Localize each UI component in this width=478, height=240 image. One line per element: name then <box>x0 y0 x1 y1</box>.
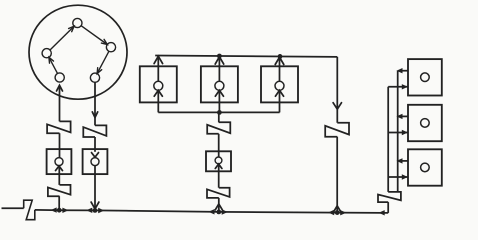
place in right buffer <box>91 158 99 166</box>
middle lower bus <box>158 111 279 113</box>
arrow up into left buffer place <box>56 166 63 171</box>
arrow up into M1 place <box>154 90 162 96</box>
wire top-bus corner down to T4 <box>333 57 341 123</box>
arrow down at bus junction 2 <box>91 202 99 209</box>
wire from left edge <box>2 207 24 209</box>
arrow up into middle buffer place <box>215 164 222 169</box>
arrow right at junction 4 <box>340 210 346 215</box>
right vertical bus A (outer) <box>387 87 389 192</box>
arrow up at bus junction 3 <box>215 204 222 210</box>
place in O2 <box>421 119 430 128</box>
buffer square right chain <box>83 149 108 174</box>
wire M1 up to top bus <box>154 56 163 81</box>
top bus <box>155 56 337 57</box>
arrow left at junction 2 <box>86 208 92 213</box>
junction dot top bus M3 <box>278 54 283 59</box>
wire M2 down to lower bus <box>218 90 220 112</box>
place top (small circle) <box>73 18 82 27</box>
wire T5 to small buffer <box>218 134 220 157</box>
small buffer square middle <box>206 151 231 171</box>
arrow left at junction 4 <box>328 210 334 215</box>
transition T3 (right chain) <box>83 125 106 137</box>
machine M2 square <box>201 66 238 102</box>
place in middle buffer <box>215 157 222 164</box>
arrow right at junction 3 <box>222 209 228 214</box>
wire T6 to bus <box>218 198 220 212</box>
place left (small circle) <box>42 49 51 58</box>
stub O3 out to inner bus <box>396 158 408 163</box>
junction dot 1 <box>57 208 62 213</box>
wire M2 up to top bus <box>215 57 224 82</box>
arc bl->left <box>49 57 58 73</box>
stub O2 out to inner bus <box>396 114 408 119</box>
arrow left at junction 3 <box>208 209 214 214</box>
arc right->br <box>97 51 109 73</box>
junction dot top bus M2 <box>217 54 222 59</box>
arrow right at junction 2 <box>98 208 104 213</box>
wire lower bus to T5 <box>218 112 220 122</box>
arrow up into M2 place <box>215 90 223 96</box>
place in left buffer <box>55 158 63 166</box>
place in O1 <box>421 73 430 82</box>
bottom bus <box>35 210 388 213</box>
wire T2 to bus <box>58 196 60 210</box>
wire T7 down and left to bus <box>387 202 389 213</box>
transition T6 (middle chain lower) <box>207 188 230 198</box>
output machine square O2 <box>408 105 442 141</box>
place in O3 <box>421 163 430 172</box>
wire buffer to bus <box>94 166 96 210</box>
junction dot lower bus M2 <box>217 110 222 115</box>
transition T5 (middle chain upper) <box>207 122 230 134</box>
arc left->top <box>50 26 74 50</box>
wire M3 up to top bus <box>275 57 284 81</box>
output machine square O1 <box>408 59 442 95</box>
right vertical bus B (inner) <box>397 71 399 192</box>
arrow up into M3 place <box>275 90 283 96</box>
wire T1 to buffer <box>59 133 61 157</box>
place in machine M2 <box>215 81 224 90</box>
wire T3 to buffer <box>94 137 96 152</box>
junction dot 4 <box>335 210 340 215</box>
transition T0 (horizontal, far left) <box>24 200 35 220</box>
stub O1 out to inner bus <box>396 68 408 73</box>
arc top->right <box>81 26 107 45</box>
arrow left at junction 1 <box>51 207 57 212</box>
junction dot 3 <box>216 210 221 215</box>
stub outer bus into O2 <box>388 130 408 135</box>
transition T2 (left chain lower) <box>48 185 71 196</box>
junction dot 2 <box>93 208 98 213</box>
wire T4 down to bus <box>336 137 338 213</box>
buffer square left chain <box>47 149 72 174</box>
place right (small circle) <box>106 43 115 52</box>
wire exit from place br <box>92 82 97 125</box>
transition T4 (right of machines) <box>325 123 349 137</box>
arrow up at bus junction 4 <box>334 206 341 212</box>
stub outer bus into O1 <box>388 84 408 89</box>
machine M1 square <box>140 66 177 102</box>
wire entry into place bl <box>57 85 63 121</box>
wire buffer to T2 <box>58 166 60 185</box>
stub outer bus into O3 <box>388 174 408 179</box>
place in machine M1 <box>154 81 163 90</box>
arrow down into right buffer place <box>92 153 99 158</box>
wire M1 down to lower bus <box>157 90 159 112</box>
machine M3 square <box>261 66 298 102</box>
place group boundary (large circle) <box>29 5 127 99</box>
transition T1 (left chain upper) <box>47 121 71 133</box>
wire buffer to T6 <box>218 164 220 188</box>
place br (small circle) <box>90 73 99 82</box>
arrow right at junction 1 <box>62 208 68 213</box>
transition T7 (bottom right) <box>378 192 401 202</box>
place bl (small circle) <box>55 73 64 82</box>
output machine square O3 <box>408 149 442 185</box>
wire M3 down to lower bus <box>279 90 281 112</box>
arrow left into bus end <box>379 210 385 215</box>
place in machine M3 <box>275 81 284 90</box>
